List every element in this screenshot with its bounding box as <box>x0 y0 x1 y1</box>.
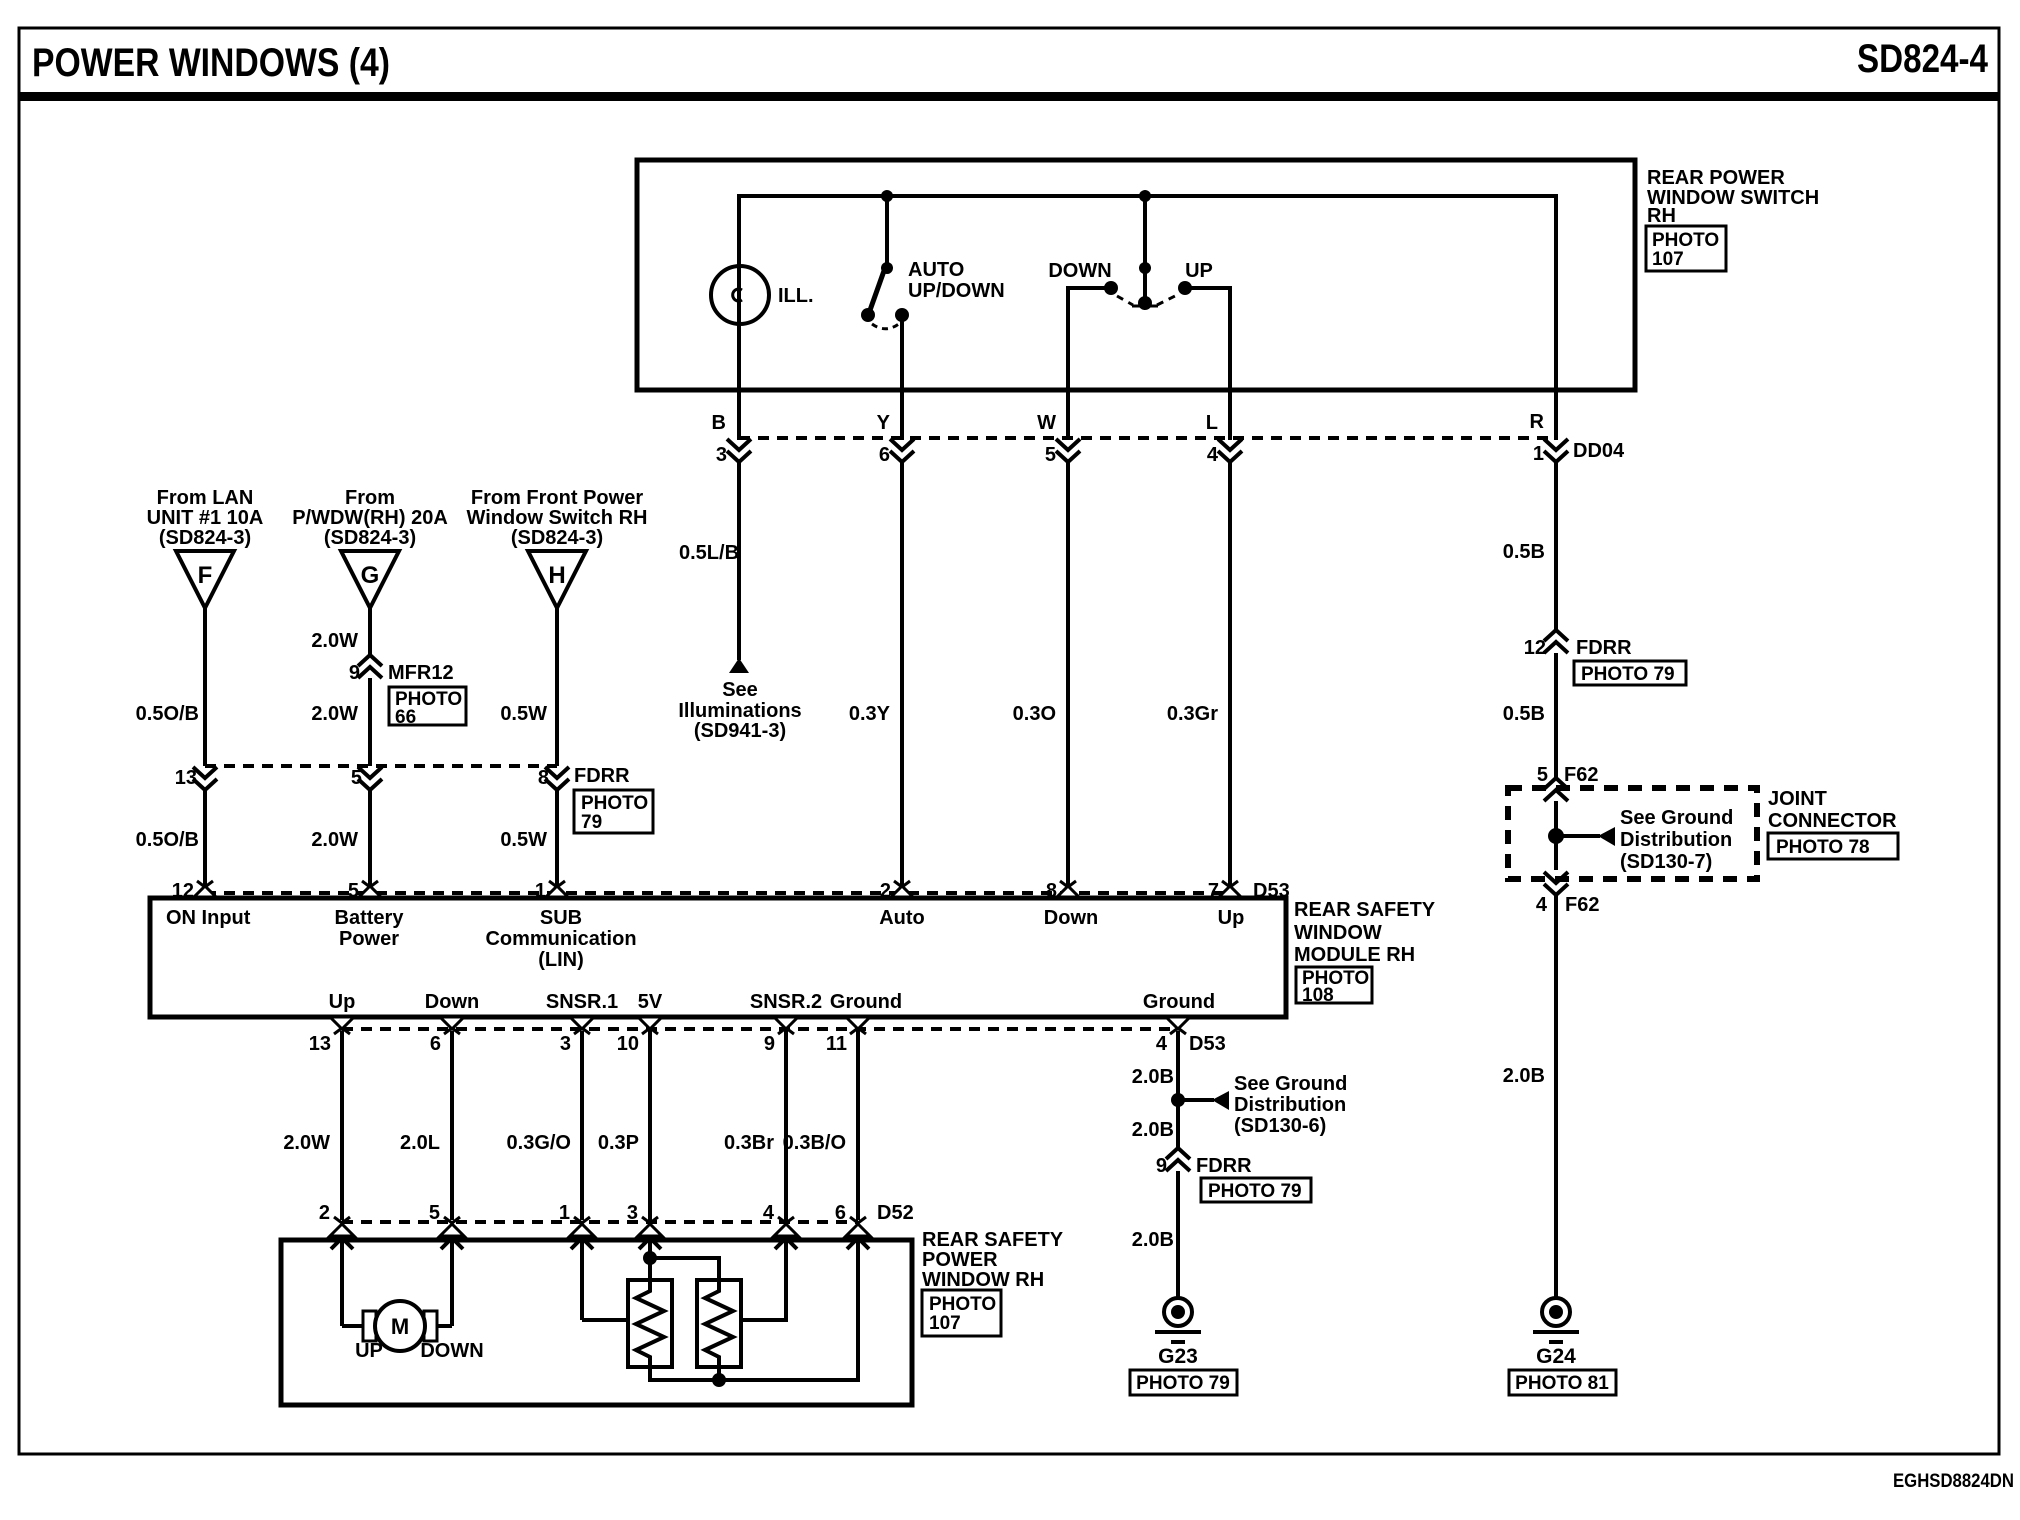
svg-text:POWER: POWER <box>922 1249 998 1271</box>
svg-text:Window Switch RH: Window Switch RH <box>467 507 648 529</box>
svg-text:Y: Y <box>877 412 891 434</box>
joint connector dashed box <box>1508 788 1757 879</box>
svg-text:2.0W: 2.0W <box>311 829 358 851</box>
svg-text:REAR SAFETY: REAR SAFETY <box>1294 899 1436 921</box>
svg-text:0.5O/B: 0.5O/B <box>136 829 199 851</box>
svg-text:P/WDW(RH) 20A: P/WDW(RH) 20A <box>292 507 448 529</box>
module bottom pin labels <box>329 991 1215 1013</box>
see ground distribution SD130-7 pointer <box>1556 807 1733 873</box>
svg-text:Ground: Ground <box>830 991 902 1013</box>
connector chevrons pin 5 <box>1056 439 1080 462</box>
svg-text:0.3B/O: 0.3B/O <box>783 1132 846 1154</box>
node: junction at AUTO switch <box>881 190 893 202</box>
svg-text:2.0B: 2.0B <box>1503 1065 1545 1087</box>
svg-text:8: 8 <box>538 767 549 789</box>
label REAR SAFETY POWER WINDOW RH <box>922 1229 1064 1291</box>
svg-text:FDRR: FDRR <box>1196 1155 1252 1177</box>
wire inside joint box <box>1554 801 1558 870</box>
svg-text:FDRR: FDRR <box>574 765 630 787</box>
connector MFR12 pin 9 <box>358 655 382 678</box>
label REAR POWER WINDOW SWITCH RH <box>1647 167 1819 227</box>
svg-text:0.5B: 0.5B <box>1503 703 1545 725</box>
svg-text:5: 5 <box>1537 764 1548 786</box>
svg-text:From LAN: From LAN <box>157 487 254 509</box>
node ground junction <box>1171 1093 1185 1107</box>
resistor sensor 1 <box>582 1240 672 1367</box>
svg-text:WINDOW: WINDOW <box>1294 922 1382 944</box>
svg-text:See: See <box>722 679 758 701</box>
module pin 1 <box>545 881 569 898</box>
svg-text:(SD824-3): (SD824-3) <box>324 527 416 549</box>
module pin 5 <box>358 881 382 898</box>
svg-text:See Ground: See Ground <box>1234 1073 1347 1095</box>
PHOTO 79 box (ground) <box>1201 1178 1311 1202</box>
svg-text:DOWN: DOWN <box>420 1340 483 1362</box>
svg-text:0.5O/B: 0.5O/B <box>136 703 199 725</box>
switch AUTO UP/DOWN <box>861 196 1005 390</box>
module box <box>150 898 1286 1017</box>
svg-text:10: 10 <box>617 1033 639 1055</box>
svg-text:5: 5 <box>429 1202 440 1224</box>
module pin 3 <box>570 1017 594 1034</box>
svg-text:EGHSD8824DN: EGHSD8824DN <box>1893 1471 2014 1492</box>
svg-text:D53: D53 <box>1189 1033 1226 1055</box>
svg-text:6: 6 <box>879 444 890 466</box>
svg-text:(LIN): (LIN) <box>538 949 584 971</box>
svg-text:0.3G/O: 0.3G/O <box>507 1132 571 1154</box>
wire resistor bottoms to pin 6 <box>650 1240 858 1380</box>
dashed connector row D52 <box>342 1220 858 1224</box>
wire stubs from box to connector row <box>737 390 741 440</box>
svg-text:WINDOW RH: WINDOW RH <box>922 1269 1044 1291</box>
svg-text:12: 12 <box>1524 637 1546 659</box>
wire B column to illumination arrow <box>737 461 741 660</box>
svg-text:4: 4 <box>1207 444 1219 466</box>
svg-text:0.3Br: 0.3Br <box>724 1132 774 1154</box>
svg-text:(SD824-3): (SD824-3) <box>159 527 251 549</box>
wire H column <box>555 608 559 766</box>
box pin 5 <box>440 1217 464 1249</box>
svg-text:See Ground: See Ground <box>1620 807 1733 829</box>
see ground distribution SD130-6 pointer <box>1178 1073 1347 1137</box>
svg-text:D52: D52 <box>877 1202 914 1224</box>
svg-text:UP: UP <box>1185 260 1213 282</box>
svg-text:0.3O: 0.3O <box>1013 703 1056 725</box>
PHOTO 79 box (left) <box>574 790 653 833</box>
label REAR SAFETY WINDOW MODULE RH <box>1294 899 1436 966</box>
svg-text:Down: Down <box>425 991 479 1013</box>
box pin 6 <box>846 1217 870 1249</box>
svg-text:MFR12: MFR12 <box>388 662 454 684</box>
svg-text:5: 5 <box>351 767 362 789</box>
svg-text:79: 79 <box>581 812 602 833</box>
svg-text:3: 3 <box>627 1202 638 1224</box>
module pin 11 <box>846 1017 870 1034</box>
svg-text:W: W <box>1037 412 1056 434</box>
svg-text:RH: RH <box>1647 205 1676 227</box>
chevrons pin 13 <box>193 767 217 790</box>
wire sensor2 right to pin 4 <box>741 1240 786 1320</box>
svg-text:Communication: Communication <box>485 928 636 950</box>
box pin 2 <box>330 1217 354 1249</box>
svg-text:B: B <box>712 412 726 434</box>
svg-text:107: 107 <box>1652 249 1684 270</box>
svg-text:FDRR: FDRR <box>1576 637 1632 659</box>
svg-text:(SD941-3): (SD941-3) <box>694 720 786 742</box>
svg-text:2.0L: 2.0L <box>400 1132 440 1154</box>
svg-text:6: 6 <box>430 1033 441 1055</box>
module pin 9 <box>774 1017 798 1034</box>
dashed connector line DD04 <box>739 436 1556 440</box>
svg-text:SNSR.2: SNSR.2 <box>750 991 822 1013</box>
svg-text:Ground: Ground <box>1143 991 1215 1013</box>
svg-text:REAR SAFETY: REAR SAFETY <box>922 1229 1064 1251</box>
svg-text:3: 3 <box>716 444 727 466</box>
svg-text:Distribution: Distribution <box>1234 1094 1346 1116</box>
svg-text:0.3Y: 0.3Y <box>849 703 891 725</box>
switch DOWN/UP <box>1048 196 1230 390</box>
PHOTO 81 box <box>1509 1370 1616 1395</box>
svg-text:M: M <box>391 1314 409 1339</box>
svg-text:11: 11 <box>826 1033 847 1055</box>
svg-text:UP/DOWN: UP/DOWN <box>908 280 1005 302</box>
svg-text:PHOTO: PHOTO <box>581 793 648 814</box>
svg-text:2: 2 <box>319 1202 330 1224</box>
svg-text:0.5W: 0.5W <box>500 703 547 725</box>
svg-text:6: 6 <box>835 1202 846 1224</box>
svg-text:Up: Up <box>329 991 356 1013</box>
PHOTO 108 box <box>1296 967 1372 1006</box>
svg-text:108: 108 <box>1302 985 1334 1006</box>
svg-text:PHOTO 78: PHOTO 78 <box>1776 837 1870 858</box>
module pin 13 <box>330 1017 354 1034</box>
svg-text:CONNECTOR: CONNECTOR <box>1768 810 1897 832</box>
wire G column <box>368 608 372 656</box>
svg-text:REAR POWER: REAR POWER <box>1647 167 1785 189</box>
svg-text:From: From <box>345 487 395 509</box>
svg-text:1: 1 <box>559 1202 570 1224</box>
svg-text:G23: G23 <box>1158 1345 1198 1368</box>
svg-text:9: 9 <box>1156 1155 1167 1177</box>
svg-text:PHOTO 79: PHOTO 79 <box>1136 1373 1230 1394</box>
connector chevrons pin 4 <box>1218 439 1242 462</box>
module pin 7 <box>1218 881 1242 898</box>
svg-text:107: 107 <box>929 1313 961 1334</box>
svg-text:F: F <box>198 562 213 589</box>
svg-text:ON Input: ON Input <box>166 907 251 929</box>
connector H from front power window switch <box>467 487 648 608</box>
svg-text:66: 66 <box>395 707 416 728</box>
svg-text:Illuminations: Illuminations <box>678 700 801 722</box>
svg-text:F62: F62 <box>1565 894 1599 916</box>
dashed connector row D53 (module top) <box>205 891 1230 895</box>
svg-text:SD824-4: SD824-4 <box>1857 37 1989 81</box>
svg-text:F62: F62 <box>1564 764 1598 786</box>
box pin 3 <box>638 1217 662 1249</box>
svg-text:0.5B: 0.5B <box>1503 541 1545 563</box>
node resistor bottom junction <box>712 1373 726 1387</box>
svg-text:2.0W: 2.0W <box>311 703 358 725</box>
lamp ILL. <box>711 266 814 324</box>
PHOTO 66 box <box>389 687 466 728</box>
module pin 4 ground <box>1166 1017 1190 1034</box>
svg-text:AUTO: AUTO <box>908 259 964 281</box>
wires module to D52 row <box>340 1031 344 1220</box>
svg-text:2.0W: 2.0W <box>311 630 358 652</box>
node joint junction <box>1548 828 1564 844</box>
connector chevrons pin 6 <box>890 439 914 462</box>
PHOTO 79 box (right) <box>1574 661 1686 685</box>
box pin 4 <box>774 1217 798 1249</box>
svg-text:PHOTO: PHOTO <box>929 1294 996 1315</box>
rear safety power window RH box <box>281 1240 912 1405</box>
connector chevrons pin 3 <box>727 439 751 462</box>
wire R column upper <box>1554 461 1558 631</box>
svg-text:Auto: Auto <box>879 907 925 929</box>
PHOTO 78 box <box>1768 833 1898 859</box>
chevrons pin 8 FDRR <box>545 767 569 790</box>
svg-text:2.0B: 2.0B <box>1132 1119 1174 1141</box>
dashed connector row D53 (module bottom) <box>342 1027 1178 1031</box>
svg-text:SUB: SUB <box>540 907 582 929</box>
svg-text:5V: 5V <box>638 991 663 1013</box>
connector FDRR pin 12 (right) <box>1544 630 1568 653</box>
svg-text:13: 13 <box>309 1033 331 1055</box>
wire R column lower <box>1554 895 1558 1298</box>
svg-text:From Front Power: From Front Power <box>471 487 643 509</box>
wire Y column <box>900 461 904 888</box>
connector chevrons pin 1 DD04 <box>1544 439 1568 462</box>
wire L column <box>1228 461 1232 888</box>
motor M <box>342 1240 484 1362</box>
svg-text:Power: Power <box>339 928 399 950</box>
svg-text:G: G <box>361 562 380 589</box>
connector F62 pin 4 <box>1544 872 1568 895</box>
module pin 8 <box>1056 881 1080 898</box>
header separator bar <box>18 92 2000 101</box>
svg-text:Down: Down <box>1044 907 1098 929</box>
svg-text:13: 13 <box>175 767 197 789</box>
svg-text:DD04: DD04 <box>1573 440 1625 462</box>
module pin 10 <box>638 1017 662 1034</box>
module pin 2 <box>890 881 914 898</box>
svg-text:POWER WINDOWS (4): POWER WINDOWS (4) <box>32 41 390 85</box>
resistor sensor 2 <box>643 1240 741 1367</box>
wire: top bus inside switch box <box>739 196 1556 390</box>
module pin 12 <box>193 881 217 898</box>
svg-text:9: 9 <box>764 1033 775 1055</box>
connector F from LAN <box>147 487 264 608</box>
svg-text:Up: Up <box>1218 907 1245 929</box>
svg-text:Distribution: Distribution <box>1620 829 1732 851</box>
connector FDRR pin 9 (bottom) <box>1166 1148 1190 1171</box>
svg-text:3: 3 <box>560 1033 571 1055</box>
box pin 1 <box>570 1217 594 1249</box>
svg-text:Battery: Battery <box>335 907 405 929</box>
PHOTO 107 box (top) <box>1646 226 1726 271</box>
svg-text:(SD130-7): (SD130-7) <box>1620 851 1712 873</box>
svg-text:DOWN: DOWN <box>1048 260 1111 282</box>
wire W column <box>1066 461 1070 888</box>
svg-text:2.0B: 2.0B <box>1132 1066 1174 1088</box>
svg-text:PHOTO 79: PHOTO 79 <box>1208 1181 1302 1202</box>
svg-text:JOINT: JOINT <box>1768 788 1827 810</box>
chevrons pin 5 <box>358 767 382 790</box>
svg-text:H: H <box>548 562 565 589</box>
svg-text:PHOTO 81: PHOTO 81 <box>1515 1373 1609 1394</box>
rear power window switch RH box <box>637 160 1635 390</box>
svg-text:2.0W: 2.0W <box>283 1132 330 1154</box>
svg-text:5: 5 <box>1045 444 1056 466</box>
svg-text:UNIT #1 10A: UNIT #1 10A <box>147 507 264 529</box>
PHOTO 79 box (G23) <box>1130 1370 1237 1395</box>
svg-text:0.5L/B: 0.5L/B <box>679 542 739 564</box>
module pin 6 <box>440 1017 464 1034</box>
svg-text:(SD130-6): (SD130-6) <box>1234 1115 1326 1137</box>
svg-text:PHOTO: PHOTO <box>1652 230 1719 251</box>
wire F column <box>203 608 207 766</box>
PHOTO 107 box (bottom) <box>922 1290 1001 1336</box>
svg-text:PHOTO 79: PHOTO 79 <box>1581 664 1675 685</box>
module top pin labels <box>166 907 1244 971</box>
svg-text:0.5W: 0.5W <box>500 829 547 851</box>
svg-text:9: 9 <box>349 662 360 684</box>
dashed connector row FDRR (left) <box>205 764 557 768</box>
node: junction at DOWN/UP switch <box>1139 190 1151 202</box>
svg-text:R: R <box>1530 411 1545 433</box>
svg-text:2.0B: 2.0B <box>1132 1229 1174 1251</box>
svg-text:0.3Gr: 0.3Gr <box>1167 703 1218 725</box>
svg-text:L: L <box>1206 412 1218 434</box>
svg-text:ILL.: ILL. <box>778 285 814 307</box>
svg-text:G24: G24 <box>1536 1345 1576 1368</box>
wire ground column <box>1176 1031 1180 1149</box>
svg-text:0.3P: 0.3P <box>598 1132 639 1154</box>
svg-text:4: 4 <box>763 1202 775 1224</box>
svg-text:1: 1 <box>1533 443 1544 465</box>
svg-text:4: 4 <box>1536 894 1548 916</box>
connector G from P/WDW <box>292 487 448 608</box>
svg-text:4: 4 <box>1156 1033 1168 1055</box>
svg-text:MODULE RH: MODULE RH <box>1294 944 1415 966</box>
svg-text:UP: UP <box>355 1340 383 1362</box>
ground G24 <box>1533 1298 1579 1342</box>
svg-text:(SD824-3): (SD824-3) <box>511 527 603 549</box>
svg-text:SNSR.1: SNSR.1 <box>546 991 618 1013</box>
ground G23 <box>1155 1298 1201 1342</box>
